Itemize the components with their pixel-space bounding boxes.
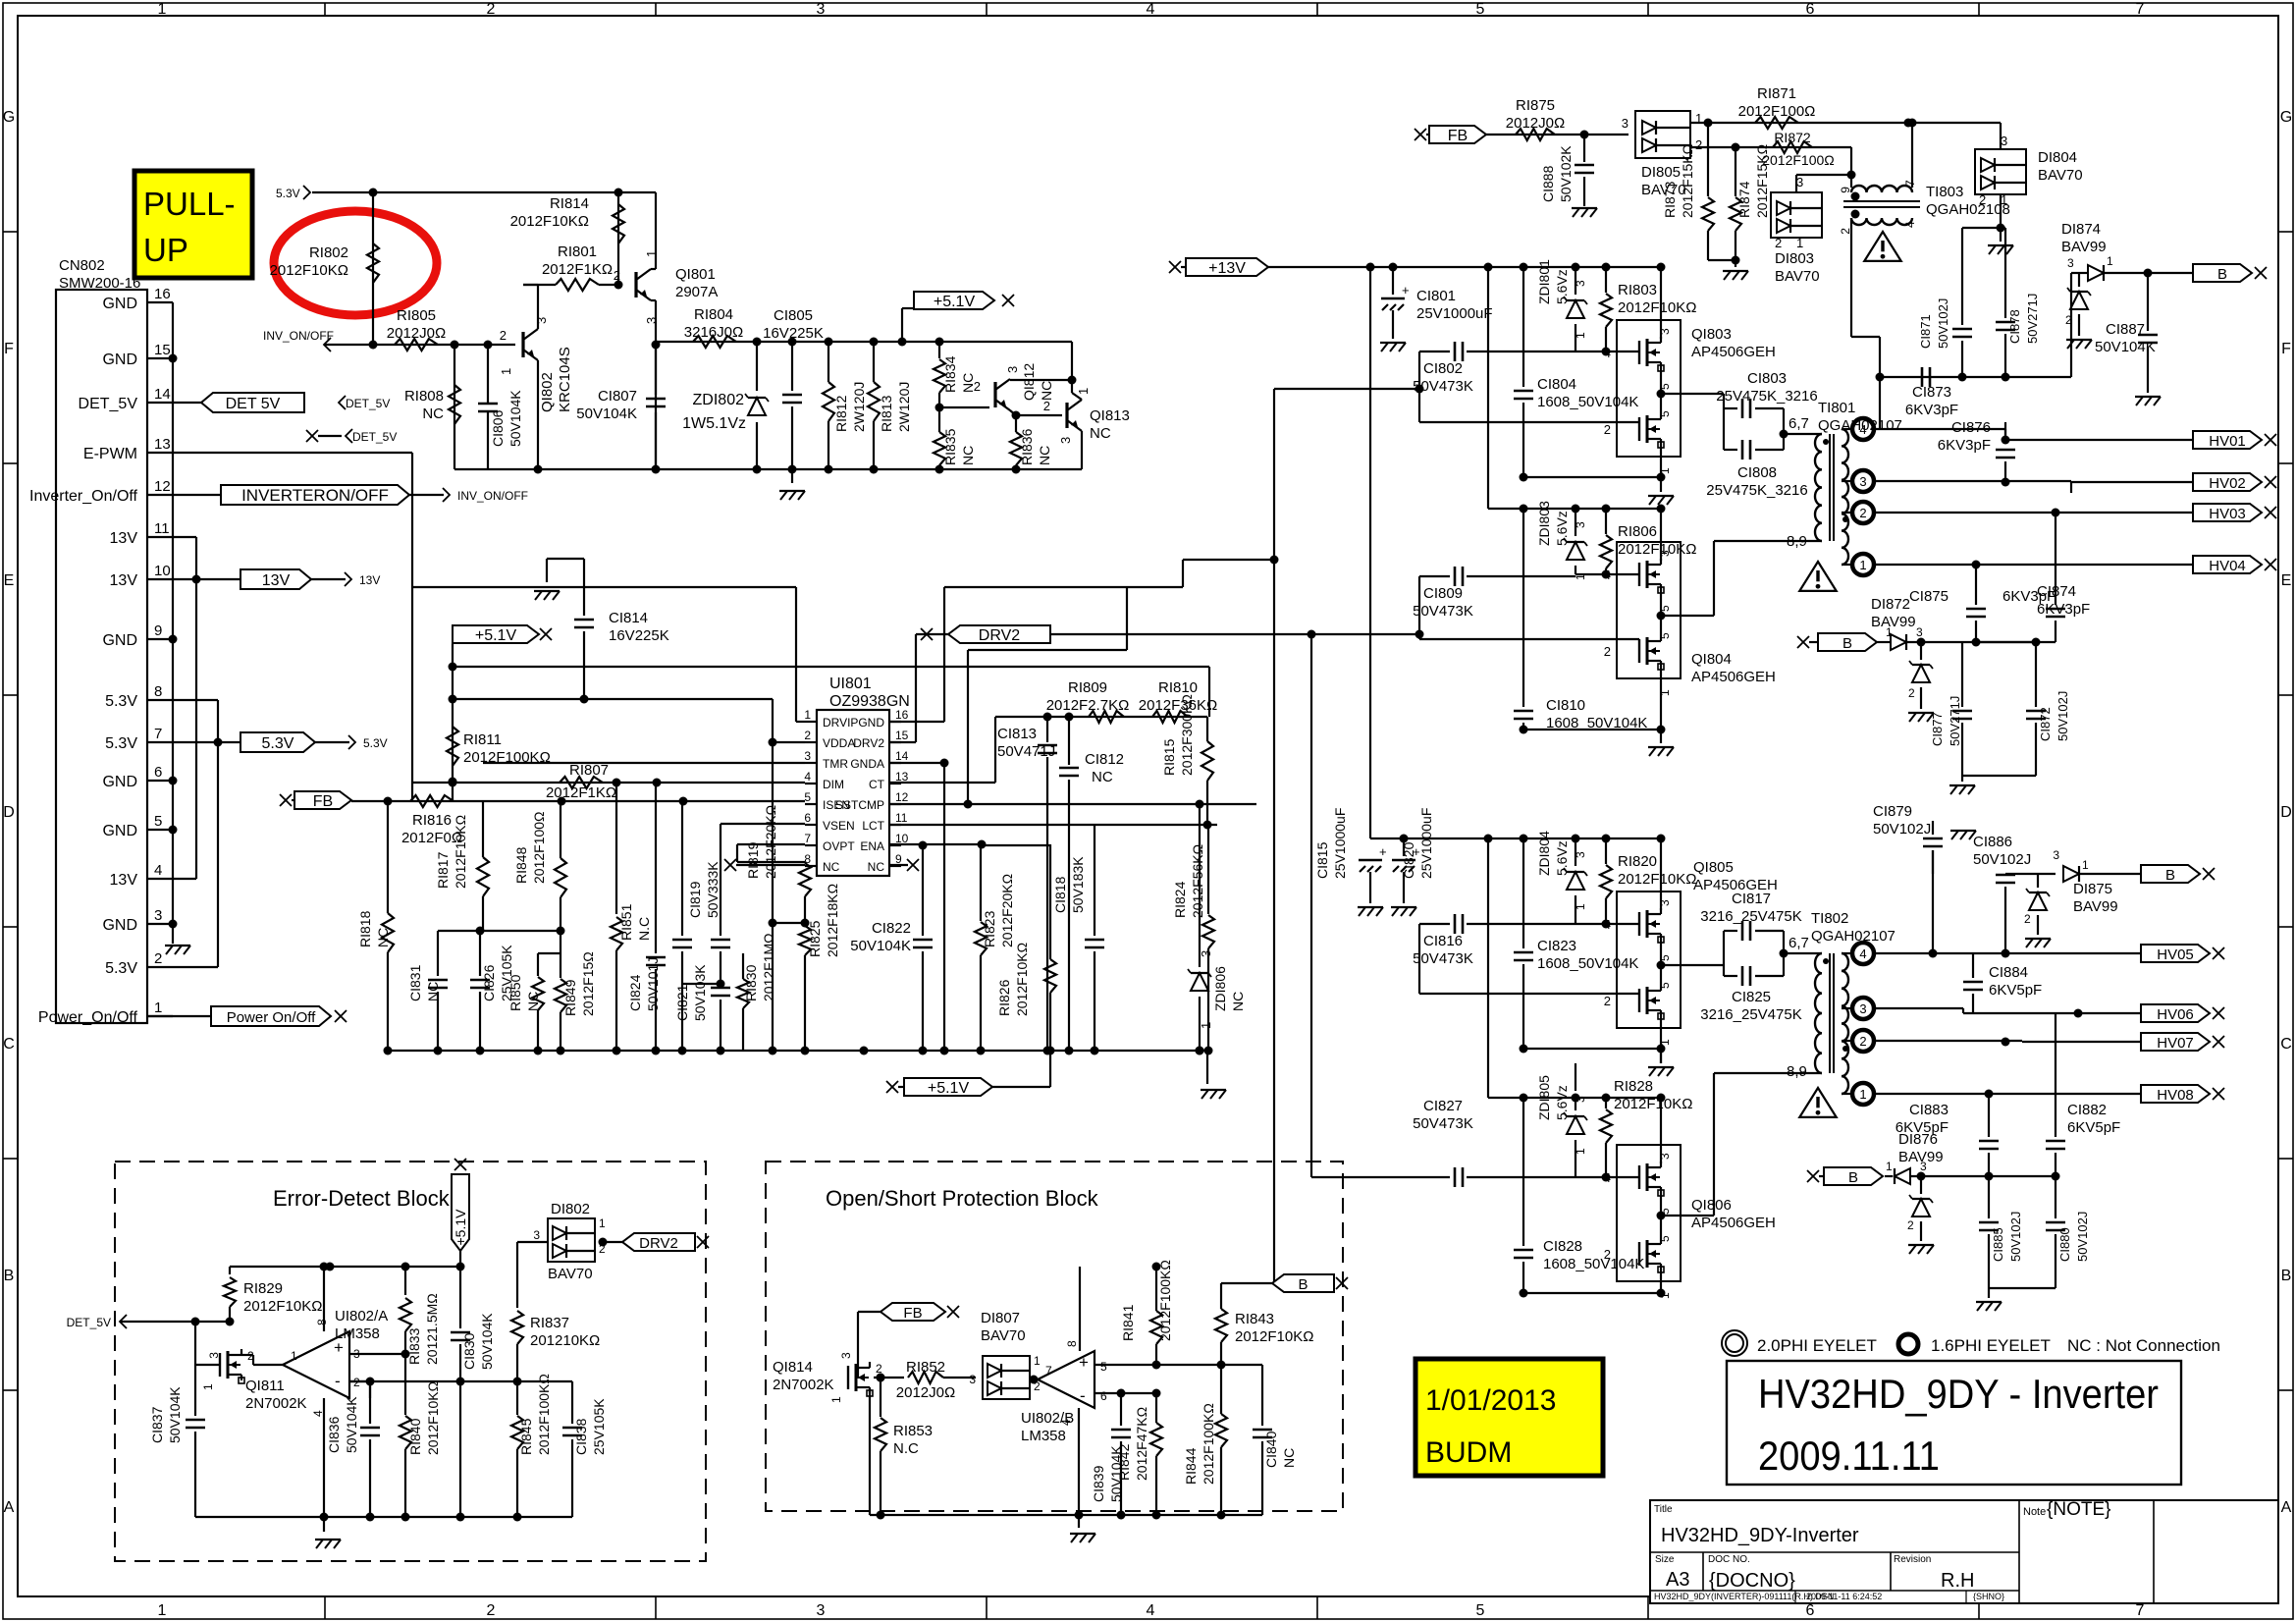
svg-text:13V: 13V: [262, 572, 291, 589]
svg-text:1: 1: [1886, 1160, 1893, 1173]
flag HV07: [2141, 1033, 2210, 1051]
diode DI872 BAV99: [1877, 641, 1890, 643]
ground at bus: [791, 469, 793, 483]
svg-text:2012F100KΩ: 2012F100KΩ: [536, 1374, 552, 1455]
svg-text:B: B: [4, 1268, 15, 1284]
svg-text:2: 2: [154, 950, 162, 967]
svg-text:50V271J: 50V271J: [1948, 696, 1962, 746]
svg-text:RI820: RI820: [1618, 853, 1657, 870]
svg-text:GND: GND: [102, 632, 137, 649]
svg-text:B: B: [1842, 635, 1852, 652]
flag FB open/short: [881, 1303, 945, 1321]
svg-text:CI817: CI817: [1732, 891, 1771, 907]
svg-text:8: 8: [154, 683, 162, 700]
svg-text:14: 14: [895, 749, 909, 763]
svg-text:2: 2: [2065, 313, 2072, 327]
svg-text:Note: Note: [2023, 1506, 2046, 1518]
flag DET_5V unused stub: [306, 430, 318, 442]
svg-text:50V104K: 50V104K: [167, 1386, 183, 1443]
resistor RI807: [560, 777, 603, 788]
transistor QI811 2N7002K mosfet: [219, 1353, 221, 1377]
wire SSTCMP pin12: [889, 803, 1256, 805]
svg-text:13: 13: [154, 436, 171, 453]
svg-text:RI810: RI810: [1158, 679, 1198, 696]
svg-text:2N7002K: 2N7002K: [245, 1395, 307, 1412]
svg-text:AP4506GEH: AP4506GEH: [1691, 1215, 1776, 1231]
wire QI806 mid node: [1660, 1193, 1662, 1238]
svg-text:2012J0Ω: 2012J0Ω: [387, 325, 446, 342]
svg-text:1/01/2013: 1/01/2013: [1425, 1384, 1556, 1417]
svg-text:CI837: CI837: [149, 1406, 165, 1443]
svg-text:RI840: RI840: [407, 1418, 423, 1455]
svg-text:A: A: [4, 1499, 15, 1516]
svg-text:2: 2: [974, 379, 981, 394]
svg-text:CI813: CI813: [997, 726, 1037, 742]
svg-text:DI872: DI872: [1871, 596, 1910, 613]
svg-text:RI844: RI844: [1183, 1447, 1199, 1485]
capacitor CI823: [1522, 838, 1524, 948]
capacitor CI810: [1522, 509, 1524, 707]
svg-text:3: 3: [1574, 280, 1587, 287]
svg-text:3: 3: [1005, 366, 1020, 373]
wire DI805 pin1 row y=125: [1690, 122, 2001, 124]
resistor RI851: [615, 783, 617, 914]
resistor RI840: [404, 1370, 406, 1415]
resistor RI824: [1207, 825, 1209, 914]
svg-text:CI807: CI807: [598, 388, 637, 405]
svg-text:RI809: RI809: [1068, 679, 1107, 696]
wire DRV1 top rail: [412, 586, 796, 588]
flag HV05: [2141, 945, 2210, 962]
svg-text:CI882: CI882: [2067, 1102, 2107, 1118]
svg-text:+5.1V: +5.1V: [934, 294, 976, 310]
capacitor CI819 pair: [681, 801, 683, 936]
svg-text:5.3V: 5.3V: [105, 960, 137, 977]
capacitor CI817 pair: [1723, 931, 1725, 976]
svg-text:6: 6: [1100, 1389, 1107, 1403]
svg-text:3: 3: [207, 1352, 221, 1359]
svg-text:RI830: RI830: [743, 964, 759, 1001]
capacitor CI812: [1068, 717, 1070, 765]
svg-text:CI823: CI823: [1537, 938, 1576, 954]
svg-text:6KV3pF: 6KV3pF: [1905, 402, 1958, 418]
svg-text:3: 3: [1574, 851, 1587, 858]
svg-text:15: 15: [895, 729, 909, 742]
svg-text:CI819: CI819: [687, 881, 703, 918]
svg-text:1W5.1Vz: 1W5.1Vz: [682, 415, 746, 432]
resistor RI823: [980, 844, 982, 921]
svg-text:50V473K: 50V473K: [1413, 950, 1473, 967]
svg-text:1: 1: [1199, 1022, 1213, 1029]
svg-text:QI814: QI814: [773, 1359, 813, 1376]
svg-text:RI812: RI812: [833, 395, 849, 432]
svg-text:INVERTERON/OFF: INVERTERON/OFF: [241, 486, 389, 505]
flag HV01: [2193, 431, 2262, 449]
svg-text:Title: Title: [1654, 1504, 1673, 1515]
svg-text:+: +: [1079, 1353, 1089, 1372]
svg-text:CI810: CI810: [1546, 697, 1585, 714]
capacitor CI880: [2055, 1176, 2056, 1218]
svg-text:TI801: TI801: [1818, 400, 1855, 416]
svg-text:4: 4: [1859, 946, 1866, 961]
svg-text:HV07: HV07: [2157, 1035, 2194, 1052]
wire HV02: [1874, 480, 2071, 482]
svg-text:50V103K: 50V103K: [692, 964, 708, 1021]
svg-text:E: E: [4, 572, 15, 589]
svg-text:13V: 13V: [110, 872, 138, 889]
svg-text:PGND: PGND: [850, 716, 884, 730]
wire to TI801 pins 6,7: [1784, 433, 1822, 435]
flag HV03: [2193, 504, 2262, 521]
svg-text:RI813: RI813: [879, 395, 894, 432]
svg-text:2W120J: 2W120J: [896, 382, 912, 432]
wire UI801 pin2 VDDA: [773, 741, 805, 743]
svg-text:13V: 13V: [110, 530, 138, 547]
resistor RI809: [1089, 711, 1124, 723]
svg-text:RI825: RI825: [807, 920, 823, 957]
svg-text:7: 7: [154, 726, 162, 742]
capacitor CI828: [1522, 1098, 1524, 1246]
svg-text:50V104K: 50V104K: [2095, 339, 2156, 355]
svg-text:2: 2: [1859, 1034, 1866, 1049]
svg-text:CI872: CI872: [2038, 707, 2053, 741]
resistor RI825: [801, 919, 810, 928]
wire PGND right: [889, 721, 944, 723]
svg-text:2012F2.7KΩ: 2012F2.7KΩ: [1046, 697, 1130, 714]
wire HV03: [1874, 512, 1977, 514]
svg-text:8: 8: [1065, 1340, 1079, 1347]
svg-text:201210KΩ: 201210KΩ: [530, 1332, 600, 1349]
svg-text:HV04: HV04: [2209, 558, 2246, 574]
svg-text:F: F: [2281, 341, 2291, 357]
capacitor CI802: [1419, 351, 1450, 352]
opamp pin8 wire: [320, 1263, 329, 1271]
svg-text:VDDA: VDDA: [823, 736, 855, 750]
wire open block bottom rail: [870, 1514, 1262, 1516]
svg-text:25V105K: 25V105K: [591, 1398, 607, 1455]
svg-text:2012F10KΩ: 2012F10KΩ: [1235, 1328, 1313, 1345]
svg-text:B: B: [2281, 1268, 2292, 1284]
resistor RI830: [742, 983, 744, 985]
svg-text:BUDM: BUDM: [1425, 1436, 1512, 1469]
svg-text:DIM: DIM: [823, 778, 844, 791]
svg-text:CI820: CI820: [1401, 841, 1416, 879]
svg-text:BAV70: BAV70: [2038, 167, 2083, 184]
svg-text:50V104K: 50V104K: [507, 390, 523, 447]
transistor QI812 NC: [939, 406, 989, 408]
svg-text:2012F10KΩ: 2012F10KΩ: [270, 262, 348, 279]
svg-text:UI802/A: UI802/A: [335, 1308, 388, 1325]
svg-text:2: 2: [1604, 422, 1611, 437]
svg-text:{DOCNO}: {DOCNO}: [1709, 1570, 1795, 1592]
resistor RI837: [511, 1311, 523, 1344]
wire QI805 mid node: [1660, 940, 1662, 985]
UI801 pin9 NC stub: [907, 859, 919, 871]
svg-text:6KV3pF: 6KV3pF: [2037, 601, 2090, 618]
svg-text:CI836: CI836: [326, 1416, 342, 1453]
flag HV04: [2193, 556, 2262, 573]
svg-text:1: 1: [2082, 858, 2089, 872]
svg-text:E: E: [2281, 572, 2292, 589]
svg-text:1608_50V104K: 1608_50V104K: [1537, 394, 1638, 410]
svg-text:50V473K: 50V473K: [1413, 603, 1473, 620]
svg-text:R.H: R.H: [1941, 1570, 1974, 1592]
svg-text:50V471J: 50V471J: [997, 743, 1055, 760]
svg-text:CI826: CI826: [481, 964, 497, 1001]
svg-text:ZDI805: ZDI805: [1536, 1075, 1552, 1120]
wire bottom bus y=478: [454, 468, 1082, 470]
wire long vertical x=1516 to lower rail: [1487, 267, 1489, 509]
svg-text:CI887: CI887: [2106, 321, 2145, 338]
svg-text:RI806: RI806: [1618, 523, 1657, 540]
svg-text:RI803: RI803: [1618, 282, 1657, 298]
wire x=1298 vertical: [1273, 389, 1275, 1281]
wire error block bottom: [195, 1516, 572, 1518]
svg-text:A3: A3: [1666, 1569, 1689, 1591]
wire y=384 row: [1880, 376, 2071, 378]
resistor RI842: [1155, 1393, 1157, 1423]
svg-text:CI808: CI808: [1737, 464, 1777, 481]
svg-text:2012F10KΩ: 2012F10KΩ: [1618, 871, 1696, 888]
capacitor CI814: [574, 619, 594, 622]
svg-text:6KV5pF: 6KV5pF: [2067, 1119, 2120, 1136]
svg-text:CI824: CI824: [627, 974, 643, 1011]
svg-text:1: 1: [154, 1000, 162, 1016]
capacitor CI803 parallel pair: [1723, 394, 1725, 450]
svg-text:RI814: RI814: [550, 195, 589, 212]
svg-text:Inverter_On/Off: Inverter_On/Off: [29, 488, 138, 505]
svg-text:CI838: CI838: [573, 1418, 589, 1455]
mosfet block QI804 AP4506GEH: [1617, 542, 1681, 678]
svg-text:1: 1: [291, 1349, 297, 1363]
svg-text:50V104K: 50V104K: [850, 938, 911, 954]
resistor RI843: [1220, 1283, 1222, 1309]
svg-text:CI804: CI804: [1537, 376, 1576, 393]
svg-text:3: 3: [1574, 521, 1587, 528]
svg-text:NC: NC: [1092, 769, 1113, 785]
svg-text:7: 7: [804, 832, 811, 845]
svg-text:3216J0Ω: 3216J0Ω: [684, 324, 743, 341]
svg-text:DET 5V: DET 5V: [226, 396, 281, 412]
svg-text:D: D: [3, 804, 15, 821]
wire ZDI803 join QI804 gate: [1575, 573, 1639, 575]
wire zener join QI803 gate: [1575, 351, 1639, 352]
svg-text:DI803: DI803: [1775, 250, 1814, 267]
svg-text:2: 2: [1695, 137, 1702, 152]
svg-text:CI877: CI877: [1930, 712, 1945, 746]
wire +13V rail: [1268, 266, 1606, 268]
svg-text:3: 3: [1859, 474, 1866, 489]
svg-text:3: 3: [1920, 1160, 1927, 1173]
svg-text:Open/Short Protection Block: Open/Short Protection Block: [826, 1186, 1099, 1211]
svg-text:5: 5: [154, 813, 162, 830]
svg-text:CI883: CI883: [1909, 1102, 1949, 1118]
svg-text:50V102J: 50V102J: [2075, 1212, 2090, 1262]
svg-text:QI812: QI812: [1021, 363, 1037, 401]
svg-text:CI886: CI886: [1973, 834, 2012, 850]
wire collector rail x=668: [655, 345, 657, 469]
resistor RI818: [387, 801, 389, 913]
wire TI803 primary: [1850, 147, 1852, 188]
svg-text:1: 1: [599, 1216, 606, 1230]
svg-text:CN802: CN802: [59, 257, 105, 274]
svg-text:2907A: 2907A: [675, 284, 718, 300]
svg-text:NC: NC: [823, 860, 840, 874]
svg-text:HV02: HV02: [2209, 475, 2246, 492]
wire top rail error block: [230, 1266, 460, 1268]
svg-text:HV32HD_9DY-Inverter: HV32HD_9DY-Inverter: [1661, 1525, 1859, 1546]
flag FB top right: [1415, 129, 1426, 140]
svg-text:+: +: [1379, 844, 1387, 859]
svg-text:RI815: RI815: [1161, 738, 1177, 776]
svg-text:12: 12: [154, 478, 171, 495]
resistor RI811: [447, 727, 458, 766]
svg-text:HV08: HV08: [2157, 1087, 2194, 1104]
svg-text:Revision: Revision: [1894, 1554, 1931, 1565]
svg-text:FB: FB: [903, 1305, 922, 1322]
resistor RI805: [395, 339, 438, 351]
capacitor CI820 electrolytic: [1403, 838, 1405, 856]
svg-text:2012F15Ω: 2012F15Ω: [580, 951, 596, 1016]
capacitor CI885: [1988, 1176, 1990, 1218]
svg-text:RI843: RI843: [1235, 1311, 1274, 1327]
flag B lower right: [2141, 865, 2200, 883]
wire ZDI804 join QI805 gate: [1575, 923, 1639, 925]
resistor RI845: [516, 1381, 518, 1415]
svg-text:1: 1: [1859, 558, 1866, 572]
svg-text:FB: FB: [1448, 128, 1468, 144]
ground DI803 node: [1723, 270, 1748, 272]
svg-text:4: 4: [1147, 1, 1155, 18]
svg-text:2: 2: [804, 729, 811, 742]
wire GNDA pin14: [889, 762, 944, 764]
flag +5.1V mid: [453, 625, 539, 643]
wire TI803 secondary: [1850, 218, 1852, 337]
svg-text:TI803: TI803: [1926, 184, 1963, 200]
svg-text:2012F100Ω: 2012F100Ω: [1738, 103, 1816, 120]
capacitor CI888: [1583, 135, 1585, 162]
svg-text:2012F10KΩ: 2012F10KΩ: [243, 1298, 322, 1315]
diode DI875 BAV99: [2005, 873, 2056, 875]
svg-text:QI811: QI811: [245, 1378, 285, 1394]
svg-text:QI804: QI804: [1691, 651, 1732, 668]
resistor RI835: [938, 393, 940, 432]
svg-text:CI806: CI806: [490, 409, 506, 447]
svg-text:-: -: [1080, 1386, 1086, 1405]
svg-text:15: 15: [154, 342, 171, 358]
svg-text:2: 2: [1043, 399, 1050, 413]
svg-text:F: F: [4, 341, 14, 357]
svg-text:DET_5V: DET_5V: [79, 396, 138, 412]
svg-text:7: 7: [1045, 1364, 1052, 1378]
wire ISEN row / FB: [351, 800, 805, 802]
svg-text:50V102J: 50V102J: [2008, 1212, 2023, 1262]
svg-text:3: 3: [533, 1228, 540, 1242]
Error-Detect Block dashed box: [115, 1162, 706, 1561]
wire lower rail y=518: [1488, 508, 1606, 510]
svg-text:50V473K: 50V473K: [1413, 1115, 1473, 1132]
flag B open/short: [1221, 1282, 1272, 1284]
transistor QI801 2907A: [634, 272, 637, 297]
svg-text:B: B: [2217, 266, 2227, 283]
svg-text:Power_On/Off: Power_On/Off: [38, 1009, 138, 1026]
wire B plus-in row: [1095, 1364, 1262, 1366]
resistor RI874: [1735, 147, 1736, 196]
svg-text:9: 9: [154, 622, 162, 639]
wire DI805 pin2 row y=150: [1690, 146, 1851, 148]
svg-text:RI873: RI873: [1662, 181, 1678, 218]
flag +5.1V bottom: [886, 1081, 898, 1093]
svg-text:8,9: 8,9: [1787, 1063, 1807, 1080]
resistor RI810: [1152, 711, 1188, 723]
svg-text:ZDI801: ZDI801: [1536, 259, 1552, 304]
svg-text:3: 3: [804, 749, 811, 763]
capacitor CI808: [1724, 449, 1737, 451]
svg-text:-: -: [335, 1372, 341, 1390]
zener DI876b sym: [1912, 1199, 1930, 1216]
capacitor CI884: [1972, 994, 1974, 1013]
svg-text:50V101J: 50V101J: [645, 957, 661, 1011]
svg-text:1: 1: [201, 1383, 215, 1390]
svg-text:CI818: CI818: [1052, 876, 1068, 913]
svg-text:CI884: CI884: [1989, 964, 2028, 981]
svg-text:3: 3: [1916, 625, 1923, 639]
svg-text:A: A: [2281, 1499, 2292, 1516]
wire y=712: [453, 698, 773, 700]
ground CI814: [534, 590, 560, 592]
svg-text:DRVI: DRVI: [823, 716, 850, 730]
svg-text:2W120J: 2W120J: [851, 382, 867, 432]
capacitor CI807: [655, 342, 657, 395]
resistor RI828: [1605, 1098, 1607, 1108]
svg-text:CI809: CI809: [1423, 585, 1463, 602]
svg-text:2012F100KΩ: 2012F100KΩ: [1201, 1403, 1216, 1485]
svg-text:RI834: RI834: [942, 355, 958, 393]
svg-text:PULL-: PULL-: [143, 186, 236, 222]
svg-text:1: 1: [158, 1, 167, 18]
wire opamp power: [323, 1267, 325, 1331]
resistor RI834: [938, 342, 940, 358]
svg-text:5.6Vz: 5.6Vz: [1554, 1085, 1570, 1120]
zener DI872b: [1920, 642, 1922, 660]
svg-text:GND: GND: [102, 823, 137, 839]
svg-text:{NOTE}: {NOTE}: [2047, 1499, 2110, 1520]
capacitor CI813: [1046, 717, 1048, 742]
wire opamp out to QI811: [241, 1354, 253, 1356]
svg-text:RI808: RI808: [404, 388, 444, 405]
svg-text:RI819: RI819: [745, 841, 761, 879]
svg-text:HV01: HV01: [2209, 433, 2246, 450]
svg-text:3216_25V475K: 3216_25V475K: [1700, 908, 1801, 925]
eyelet 3 TI802: [1842, 1007, 1851, 1009]
svg-text:+: +: [334, 1338, 344, 1357]
svg-text:SSTCMP: SSTCMP: [835, 798, 884, 812]
svg-text:CI880: CI880: [2057, 1227, 2072, 1262]
title block table: [1650, 1500, 2278, 1603]
svg-text:UI802/B: UI802/B: [1021, 1410, 1074, 1427]
svg-text:ZDI802: ZDI802: [693, 392, 745, 408]
svg-text:RI828: RI828: [1614, 1078, 1653, 1095]
capacitor CI825: [1724, 975, 1737, 977]
svg-text:RI850: RI850: [507, 974, 523, 1011]
wire CI879 down: [1932, 850, 1934, 953]
svg-text:LCT: LCT: [862, 819, 884, 833]
zener DI876b: [1920, 1176, 1922, 1194]
resistor RI841: [1155, 1267, 1157, 1311]
CN802 5.3V rail: [217, 700, 219, 967]
wire QI805 source bottom: [1660, 1016, 1662, 1063]
svg-text:16V225K: 16V225K: [763, 325, 824, 342]
